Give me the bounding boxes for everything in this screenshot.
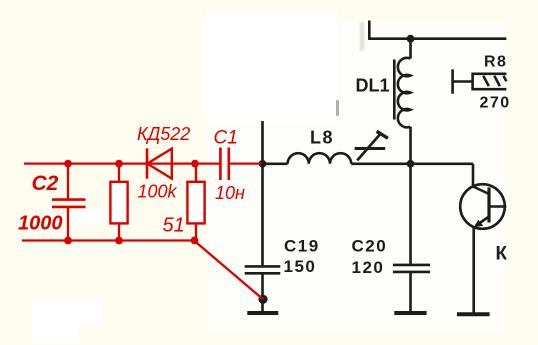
svg-text:DL1: DL1 xyxy=(356,76,390,96)
svg-text:10н: 10н xyxy=(215,183,245,203)
capacitor C2 plates xyxy=(52,200,86,207)
node: red wire to C19 branch junction dot xyxy=(259,160,267,168)
svg-text:C20: C20 xyxy=(352,237,388,256)
transistor collector slant xyxy=(473,187,489,195)
capacitor C2 stem xyxy=(67,164,69,241)
wire top horizontal rail xyxy=(368,37,506,40)
resistor R2 body xyxy=(187,182,204,224)
transistor base lead xyxy=(489,205,506,208)
trimmer arrow crossbar xyxy=(355,147,386,150)
ground gnd1 bar xyxy=(247,311,278,315)
node: red diagonal to ground junction dot xyxy=(258,295,267,304)
resistor R1 stems xyxy=(118,164,120,241)
diode VD triangle xyxy=(147,149,172,179)
wire red diagonal to ground xyxy=(194,241,263,300)
white paste rectangle A xyxy=(205,12,338,121)
node red dot top C2 xyxy=(64,160,72,168)
svg-text:270: 270 xyxy=(480,95,511,112)
capacitor C1 plates xyxy=(220,148,228,181)
scan paper region left xyxy=(205,121,338,335)
inductor DL1 vertical leads xyxy=(409,39,412,164)
resistor R1 body xyxy=(110,182,127,224)
gray scan artifact xyxy=(336,100,339,116)
node red dot bottom R2/diagonal xyxy=(191,237,199,245)
capacitor C19 plates xyxy=(245,266,281,273)
svg-text:C1: C1 xyxy=(214,128,238,149)
node: rail/DL1 junction dot xyxy=(407,35,415,43)
node red dot top R2/diode xyxy=(191,160,199,168)
wire top vertical stub xyxy=(368,21,371,39)
svg-text:КД522: КД522 xyxy=(137,124,190,144)
scan paper region right xyxy=(338,21,506,335)
resistor R2 stems xyxy=(195,164,197,241)
inductor L8 coil xyxy=(288,153,352,164)
svg-text:51: 51 xyxy=(163,215,185,237)
trimmer arrow tip bar xyxy=(377,131,388,138)
white patch near 1000 label xyxy=(70,209,104,223)
svg-text:150: 150 xyxy=(284,257,317,276)
wire left vertical (C19 branch) xyxy=(261,121,264,265)
svg-text:C2: C2 xyxy=(32,172,59,195)
wire red top rail (left of C1) xyxy=(24,162,220,164)
transistor emitter arrowhead xyxy=(474,220,483,228)
svg-text:К: К xyxy=(496,244,508,265)
node red dot bottom R1 xyxy=(115,237,123,245)
trimmer arrow shaft xyxy=(357,133,381,160)
svg-text:120: 120 xyxy=(352,258,385,277)
faint scan smudge xyxy=(360,22,365,51)
inductor DL1 coil xyxy=(398,58,411,128)
svg-text:R8: R8 xyxy=(484,54,507,71)
svg-text:C19: C19 xyxy=(284,237,320,256)
wire L8 left lead xyxy=(263,163,288,166)
wire collector drop xyxy=(472,164,475,187)
inductor DL1 core bar xyxy=(393,60,396,120)
white patch bottom-left 1 xyxy=(32,300,101,325)
ground gnd2 bar xyxy=(394,311,426,315)
ground gnd3 bar xyxy=(457,312,490,316)
wire C19 to ground xyxy=(261,273,264,311)
node red dot bottom C2 xyxy=(64,237,72,245)
wire C20 stem xyxy=(409,164,412,311)
white patch bottom-left 2 xyxy=(32,300,79,342)
wire emitter to ground xyxy=(472,227,475,314)
capacitor C20 plates xyxy=(393,265,430,272)
transistor emitter slant xyxy=(476,217,490,227)
diode VD cathode bar xyxy=(146,148,149,178)
transistor base bar xyxy=(487,188,490,223)
resistor R8 hatch marks xyxy=(483,76,506,86)
svg-text:1000: 1000 xyxy=(18,213,63,235)
svg-text:L8: L8 xyxy=(310,128,334,148)
resistor R8 left terminal bar xyxy=(451,69,454,93)
wire red top rail (right of C1) xyxy=(229,162,261,164)
transistor VT circle xyxy=(460,184,505,229)
resistor R8 lead xyxy=(453,80,473,83)
node: L8/DL1/collector junction dot xyxy=(407,160,415,168)
node red dot top R1 xyxy=(115,160,123,168)
wire L8 to transistor xyxy=(351,163,473,166)
svg-text:100k: 100k xyxy=(138,182,178,202)
resistor R8 body (clipped at right) xyxy=(473,74,507,89)
wire red bottom rail xyxy=(22,239,194,241)
